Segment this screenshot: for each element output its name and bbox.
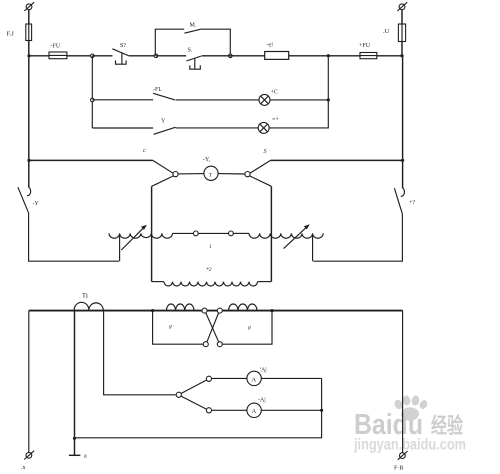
svg-text:-Y: -Y [33, 201, 40, 207]
switch QS2 blade [394, 188, 402, 213]
wire [28, 10, 30, 24]
svg-text:S: S [264, 149, 267, 155]
switch QS1 blade [18, 187, 28, 212]
wire (slope from brush) [250, 160, 271, 173]
wire [28, 160, 30, 187]
wire (branch up-left) [155, 29, 184, 56]
node M2 [270, 309, 273, 312]
wire (fan up) [181, 380, 207, 394]
svg-text:g: g [169, 324, 172, 330]
wire (left rail) [28, 56, 30, 161]
node G [327, 98, 330, 101]
wire [212, 377, 247, 379]
wire [313, 213, 402, 261]
wire [29, 55, 49, 57]
wire (right drop) [327, 56, 329, 100]
wire [289, 55, 329, 57]
wire (branch up-right) [200, 29, 230, 56]
crossed wire 2 [207, 313, 219, 342]
node L [151, 309, 154, 312]
coil KM (contactor coil) [265, 52, 289, 60]
wire (brush right drop) [250, 176, 272, 186]
terminal X4 (bottom right) [400, 453, 406, 459]
node A [91, 54, 95, 58]
pushbutton SB1 (start, NO) [186, 56, 201, 61]
svg-text:g: g [248, 325, 251, 331]
terminal circle a1 [202, 308, 207, 313]
wire [178, 173, 204, 175]
brush contact left [173, 172, 178, 177]
fuse FU4 (horizontal) [360, 53, 377, 59]
wire [173, 232, 194, 234]
svg-text:a: a [84, 454, 87, 460]
svg-text:+FU: +FU [359, 43, 371, 49]
svg-text:-FU: -FU [51, 44, 61, 50]
svg-text:1: 1 [209, 244, 212, 250]
wire (regulator left side) [151, 186, 153, 281]
pushbutton SB2 (stop, NC) [112, 49, 129, 56]
fuse FU3 (horizontal) [49, 52, 67, 59]
arrow (right regulator) [284, 225, 309, 248]
winding W4 (right crossed) [229, 304, 258, 311]
switch QS2 fixed jaw [401, 188, 405, 197]
svg-text:jingyan.baidu.com: jingyan.baidu.com [353, 437, 466, 454]
wire (regulator right side) [270, 186, 272, 281]
node B [154, 54, 158, 58]
ground [69, 454, 80, 456]
svg-text:M.: M. [190, 23, 197, 29]
wire (top bus left) [29, 159, 153, 161]
svg-text:S.: S. [188, 48, 193, 54]
contact KM (self-hold, NO) [184, 29, 200, 33]
wire (bottom left rail) [28, 311, 30, 453]
wire [156, 55, 186, 57]
wire [28, 41, 30, 56]
wire [269, 100, 328, 128]
changeover contact [176, 392, 181, 397]
contact KM2 (lamp row 1) [153, 93, 175, 100]
terminal X3 (bottom left) [26, 452, 32, 458]
wire [67, 55, 92, 57]
terminal X2 (top right) [399, 4, 405, 10]
svg-text:.U: .U [383, 28, 390, 35]
brush contact right [245, 172, 250, 177]
svg-text:-FL: -FL [153, 87, 162, 93]
wire (TA lead right) [104, 311, 177, 395]
terminal circle b1 [203, 342, 208, 347]
svg-text:c: c [143, 148, 146, 154]
wire [222, 310, 228, 312]
wire [212, 409, 247, 411]
wire (main bottom bus) [29, 310, 403, 312]
svg-text:F·B: F·B [394, 466, 403, 472]
winding W3 (left crossed) [166, 304, 194, 311]
contact KM3 (lamp row 2) [154, 127, 176, 134]
wire [218, 173, 245, 175]
crossed wire 1 [206, 313, 219, 342]
wire [377, 55, 402, 57]
contact up [206, 376, 211, 381]
wire (slope to brush) [153, 160, 173, 173]
svg-text:S?: S? [120, 43, 126, 49]
wire (meter return right) [75, 378, 322, 437]
svg-text:.x: .x [21, 465, 26, 471]
node D [327, 54, 330, 57]
svg-text:-A|: -A| [258, 398, 266, 404]
svg-text:*2: *2 [206, 267, 212, 273]
arrow (left regulator) [121, 226, 145, 250]
wire [176, 127, 259, 129]
node I [401, 159, 404, 162]
wire [194, 310, 202, 312]
wire [401, 42, 403, 56]
wire [261, 409, 321, 411]
wire (left drop to lamp rows) [91, 56, 93, 128]
wire [129, 55, 156, 57]
lamp HL2 [258, 122, 269, 133]
wire (box right side) [222, 311, 272, 345]
wire (bottom right rail) [402, 311, 404, 453]
wire [176, 99, 260, 101]
wire [402, 160, 404, 188]
svg-text:'A|: 'A| [260, 368, 267, 374]
ammeter PA1 [247, 371, 261, 385]
svg-text:TI: TI [82, 293, 88, 300]
wire [92, 55, 112, 57]
ammeter PA2 [247, 403, 261, 417]
wire [328, 55, 360, 57]
switch QS1 fixed jaw [27, 187, 31, 196]
node E [400, 54, 403, 57]
node C [229, 54, 233, 58]
wire (fan down) [181, 396, 207, 409]
winding L2 (variable, right) [249, 233, 323, 238]
wire (row 2 from left) [92, 127, 153, 129]
wire (brush left drop) [152, 176, 174, 186]
wire [401, 10, 403, 24]
wire (box left side) [153, 311, 204, 345]
winding W2 (secondary) [152, 281, 164, 283]
svg-text:A: A [252, 376, 257, 383]
wire [29, 212, 119, 261]
node (left rail / control row) [27, 54, 30, 57]
svg-text:-e!: -e! [267, 43, 274, 49]
winding L1 (variable, left) [109, 233, 173, 238]
tap circle 2 [229, 231, 234, 236]
wire (tap drop left) [119, 235, 121, 262]
node K [320, 409, 323, 412]
terminal circle b2 [217, 342, 222, 347]
svg-text:+?: +? [409, 200, 415, 206]
wire [202, 55, 265, 57]
node F [91, 98, 95, 102]
wire [270, 99, 328, 101]
fuse FU2 (vertical, top right) [398, 24, 405, 42]
svg-text:经验: 经验 [431, 413, 463, 438]
svg-text:Y: Y [161, 119, 166, 125]
motor M (regulator drive) [204, 166, 218, 180]
svg-text:F.J: F.J [7, 31, 15, 38]
wire [261, 377, 321, 379]
wire [198, 232, 228, 234]
fuse FU1 (vertical, top left) [26, 24, 32, 41]
wire (top bus right) [271, 159, 403, 161]
tap circle 1 [193, 231, 198, 236]
wire (TA lead left) [74, 311, 76, 456]
wire (tap drop right) [312, 235, 314, 262]
svg-text:+C: +C [271, 90, 278, 96]
terminal X1 (top left) [26, 4, 32, 10]
svg-text:=+: =+ [272, 117, 279, 123]
wire [92, 99, 153, 101]
node H [27, 159, 30, 162]
contact down [206, 408, 211, 413]
lamp HL1 [259, 94, 270, 105]
terminal circle a2 [217, 308, 222, 313]
svg-text:-Y,: -Y, [203, 157, 211, 163]
wire [233, 232, 249, 234]
wire (right rail) [402, 56, 404, 161]
node J [73, 437, 76, 440]
current transformer TA [74, 302, 103, 310]
svg-text:A: A [252, 408, 257, 415]
